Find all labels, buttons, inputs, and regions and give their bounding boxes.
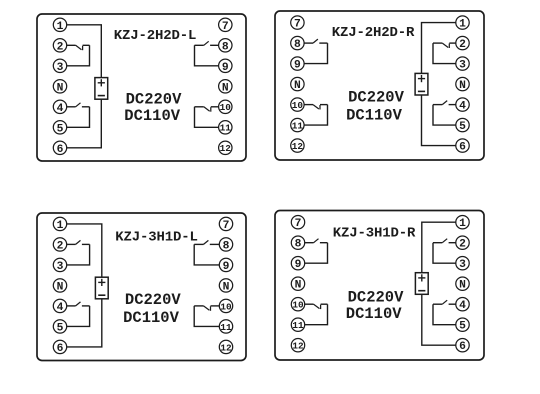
terminal pin 4 U1 left	[53, 100, 66, 115]
contact 4-5 (NO) U4	[433, 300, 456, 304]
terminal pin 11 U1 right	[219, 121, 232, 134]
svg-text:4: 4	[57, 302, 64, 314]
terminal pin 12 U1 right	[219, 141, 232, 154]
contact 10-11 (NC) U3	[194, 306, 220, 311]
wire contact 10-11 return U1	[195, 107, 220, 128]
svg-text:7: 7	[294, 19, 301, 31]
svg-text:N: N	[57, 281, 64, 293]
contact 4-5 (NO) U2	[433, 101, 456, 105]
contact 8-9 (NO) U2	[304, 39, 328, 43]
wire coil bottom to terminal6 U1	[66, 99, 101, 148]
coil (+/-) U2	[415, 73, 428, 95]
svg-text:2: 2	[57, 41, 64, 53]
svg-text:10: 10	[220, 102, 232, 113]
terminal pin 7 U4 left	[291, 216, 304, 231]
svg-text:8: 8	[295, 239, 302, 251]
terminal pin 3 U1 left	[53, 59, 66, 74]
svg-text:KZJ-3H1D-L: KZJ-3H1D-L	[115, 230, 198, 246]
svg-text:6: 6	[57, 144, 64, 156]
svg-text:5: 5	[57, 322, 64, 334]
svg-text:11: 11	[292, 121, 304, 132]
svg-text:3: 3	[459, 60, 466, 72]
terminal pin 12 U2 left	[291, 139, 304, 152]
svg-text:6: 6	[459, 142, 466, 154]
svg-text:DC110V: DC110V	[123, 309, 180, 327]
coil (+/-) U3	[95, 277, 108, 299]
svg-text:12: 12	[292, 341, 304, 352]
svg-text:N: N	[295, 280, 302, 292]
terminal pin 2 U4 right	[456, 236, 469, 251]
svg-text:1: 1	[57, 21, 64, 33]
terminal pin 5 U3 left	[53, 320, 66, 335]
terminal pin 8 U3 right	[219, 238, 232, 253]
svg-text:5: 5	[459, 121, 466, 133]
svg-text:9: 9	[295, 259, 302, 271]
terminal pin 2 U1 left	[53, 39, 66, 54]
contact 8-9 (NO) U4	[304, 239, 327, 243]
terminal pin 9 U1 right	[219, 59, 232, 74]
svg-text:KZJ-3H1D-R: KZJ-3H1D-R	[333, 225, 416, 241]
svg-text:8: 8	[222, 41, 229, 53]
relay outline box U4	[275, 211, 484, 361]
terminal pin 11 U3 right	[219, 320, 232, 333]
relay outline box U3	[37, 213, 246, 361]
svg-text:7: 7	[295, 218, 302, 230]
wire contact 4-5 return U1	[66, 107, 89, 128]
svg-text:KZJ-2H2D-R: KZJ-2H2D-R	[332, 25, 415, 41]
svg-text:6: 6	[57, 343, 64, 355]
contact 2-3 (NC) U1	[66, 45, 89, 50]
wire contact 4-5 return U3	[66, 306, 89, 327]
contact 10-11 (NC) U4	[304, 304, 327, 309]
svg-text:1: 1	[459, 19, 466, 31]
svg-text:11: 11	[220, 322, 232, 333]
svg-text:3: 3	[459, 259, 466, 271]
svg-text:8: 8	[223, 240, 230, 252]
svg-text:N: N	[294, 80, 301, 92]
svg-text:DC220V: DC220V	[348, 289, 405, 307]
terminal pin 8 U4 left	[291, 236, 304, 251]
svg-text:DC220V: DC220V	[126, 91, 183, 109]
svg-text:7: 7	[222, 21, 229, 33]
terminal pin 9 U4 left	[291, 257, 304, 272]
terminal pin 10 U4 left	[291, 298, 304, 311]
terminal pin 7 U1 right	[219, 18, 232, 33]
svg-text:1: 1	[459, 218, 466, 230]
svg-text:9: 9	[223, 261, 230, 273]
wire contact 2-3 return U1	[66, 45, 89, 66]
terminal pin 1 U3 left	[53, 217, 66, 232]
svg-text:9: 9	[294, 60, 301, 72]
wire terminal1 to coil top U1	[66, 25, 101, 78]
terminal pin 2 U2 right	[456, 36, 469, 51]
terminal pin 9 U2 left	[291, 57, 304, 72]
wire contact 10-11 return U3	[194, 306, 220, 327]
svg-text:10: 10	[292, 100, 304, 111]
terminal pin N U2 left	[291, 77, 304, 92]
svg-text:12: 12	[220, 143, 232, 154]
svg-text:5: 5	[459, 321, 466, 333]
relay outline box U2	[275, 11, 484, 160]
wire contact 2-3 return U4	[433, 243, 456, 264]
svg-text:7: 7	[223, 220, 230, 232]
svg-text:DC220V: DC220V	[125, 291, 182, 309]
wire contact 4-5 return U4	[433, 304, 456, 325]
terminal pin 11 U2 left	[291, 118, 304, 131]
svg-text:8: 8	[294, 39, 301, 51]
terminal pin 5 U1 left	[53, 121, 66, 136]
contact 2-3 (NO) U4	[433, 239, 456, 243]
svg-text:2: 2	[459, 39, 466, 51]
terminal pin 10 U1 right	[219, 100, 232, 113]
relay outline box U1	[37, 14, 246, 161]
terminal pin 8 U1 right	[219, 39, 232, 54]
terminal pin N U1 right	[219, 80, 232, 95]
terminal pin 1 U2 right	[456, 16, 469, 31]
coil (+/-) U1	[95, 78, 108, 100]
terminal pin N U3 left	[53, 279, 66, 294]
wire contact 2-3 return U3	[66, 244, 89, 265]
terminal pin N U4 right	[456, 277, 469, 292]
terminal pin 6 U4 right	[456, 339, 469, 354]
svg-text:3: 3	[57, 261, 64, 273]
svg-text:12: 12	[292, 141, 304, 152]
terminal pin 6 U3 left	[53, 340, 66, 355]
svg-text:6: 6	[459, 341, 466, 353]
terminal pin 6 U2 right	[456, 139, 469, 154]
terminal pin 4 U4 right	[456, 298, 469, 313]
terminal pin 11 U4 left	[291, 318, 304, 331]
terminal pin 7 U2 left	[291, 16, 304, 31]
svg-text:3: 3	[57, 62, 64, 74]
svg-text:2: 2	[459, 239, 466, 251]
contact 8-9 (NO) U1	[195, 41, 220, 45]
wire contact 8-9 return U3	[194, 244, 220, 265]
svg-text:2: 2	[57, 240, 64, 252]
wire terminal1 to coil top U3	[66, 224, 102, 277]
svg-text:11: 11	[292, 320, 304, 331]
svg-text:N: N	[222, 82, 229, 94]
terminal pin 12 U4 left	[291, 339, 304, 352]
svg-text:DC220V: DC220V	[348, 89, 405, 107]
svg-text:5: 5	[57, 123, 64, 135]
coil (+/-) U4	[415, 273, 428, 295]
svg-text:4: 4	[57, 103, 64, 115]
terminal pin 7 U3 right	[219, 217, 232, 232]
wire contact 10-11 return U4	[304, 304, 327, 325]
terminal pin 8 U2 left	[291, 36, 304, 51]
contact 2-3 (NC) U2	[433, 43, 456, 48]
wire terminal1 to coil top U2	[422, 23, 457, 74]
wire contact 2-3 return U2	[433, 43, 456, 64]
svg-text:DC110V: DC110V	[346, 305, 403, 323]
terminal pin 1 U1 left	[53, 18, 66, 33]
svg-text:10: 10	[292, 300, 304, 311]
svg-text:N: N	[459, 80, 466, 92]
wire contact 8-9 return U4	[304, 243, 327, 264]
terminal pin 3 U4 right	[456, 257, 469, 272]
svg-text:10: 10	[220, 301, 232, 312]
svg-text:N: N	[57, 82, 64, 94]
terminal pin 10 U3 right	[219, 299, 232, 312]
terminal pin 4 U2 right	[456, 98, 469, 113]
svg-text:DC110V: DC110V	[124, 107, 181, 125]
terminal pin 10 U2 left	[291, 98, 304, 111]
svg-text:9: 9	[222, 62, 229, 74]
svg-text:DC110V: DC110V	[346, 107, 403, 125]
svg-text:12: 12	[220, 342, 232, 353]
svg-text:KZJ-2H2D-L: KZJ-2H2D-L	[114, 28, 197, 44]
svg-text:N: N	[459, 280, 466, 292]
wire terminal1 to coil top U4	[422, 222, 456, 273]
wire coil bottom to terminal6 U2	[422, 95, 457, 146]
terminal pin N U2 right	[456, 77, 469, 92]
contact 8-9 (NO) U3	[194, 240, 220, 244]
wire contact 8-9 return U2	[304, 43, 328, 64]
terminal pin 9 U3 right	[219, 258, 232, 273]
terminal pin 3 U3 left	[53, 258, 66, 273]
terminal pin 5 U2 right	[456, 118, 469, 133]
wire coil bottom to terminal6 U3	[66, 299, 102, 347]
wire contact 10-11 return U2	[304, 105, 328, 126]
svg-text:N: N	[223, 281, 230, 293]
svg-text:4: 4	[459, 300, 466, 312]
svg-text:1: 1	[57, 220, 64, 232]
terminal pin 4 U3 left	[53, 299, 66, 314]
terminal pin N U1 left	[53, 80, 66, 95]
wire contact 8-9 return U1	[195, 45, 220, 66]
contact 10-11 (NC) U2	[304, 105, 328, 110]
terminal pin N U4 left	[291, 277, 304, 292]
terminal pin N U3 right	[219, 279, 232, 294]
terminal pin 2 U3 left	[53, 238, 66, 253]
terminal pin 6 U1 left	[53, 141, 66, 156]
terminal pin 5 U4 right	[456, 318, 469, 333]
contact 10-11 (NC) U1	[195, 107, 220, 112]
contact 4-5 (NO) U1	[66, 103, 89, 107]
wire coil bottom to terminal6 U4	[422, 294, 456, 345]
contact 2-3 (NO) U3	[66, 240, 89, 244]
svg-text:4: 4	[459, 101, 466, 113]
terminal pin 12 U3 right	[219, 340, 232, 353]
terminal pin 3 U2 right	[456, 57, 469, 72]
wire contact 4-5 return U2	[433, 105, 456, 126]
svg-text:11: 11	[220, 123, 232, 134]
contact 4-5 (NO) U3	[66, 302, 89, 306]
terminal pin 1 U4 right	[456, 216, 469, 231]
